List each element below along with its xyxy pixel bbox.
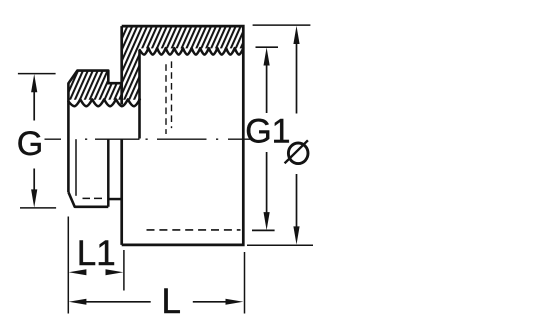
- svg-text:L: L: [162, 282, 181, 321]
- dimension G up arrow: [31, 74, 37, 92]
- dimension diameter bottom extension line: [247, 244, 313, 246]
- dimension G1 up arrow: [264, 47, 270, 65]
- dimension G1 top tick: [256, 46, 279, 48]
- counterbore face line: [138, 50, 141, 139]
- dimension L line left segment: [85, 301, 151, 303]
- dimension L right extension line: [244, 252, 246, 314]
- svg-text:G: G: [17, 125, 43, 163]
- section hatching (body wall and boss wall): [68, 26, 243, 100]
- centerline (dash-dot axis): [45, 138, 251, 140]
- shared left extension line for L1 and L: [67, 217, 69, 314]
- step face line (bottom half): [107, 139, 110, 207]
- body left face line upper segment: [120, 26, 123, 104]
- dimension diameter up arrow: [293, 26, 299, 44]
- dimension G down arrow: [31, 189, 37, 207]
- body outline (top, right, bottom edges): [122, 26, 244, 245]
- internal thread G zigzag: [68, 99, 139, 106]
- body left face line lower segment: [120, 139, 123, 245]
- dimension L1 right arrow: [106, 269, 124, 275]
- dimension L line right segment: [193, 301, 226, 303]
- dimension G1 bottom tick: [252, 229, 275, 231]
- dimension L1 left arrow: [69, 269, 87, 275]
- dimension L1 right extension line: [123, 250, 125, 291]
- dimension diameter top extension line: [253, 24, 311, 26]
- boss top outline with chamfer, step and neck top edge: [68, 71, 121, 193]
- svg-text:G1: G1: [245, 113, 290, 151]
- dimension G top extension line: [18, 73, 56, 75]
- internal thread G1 zigzag: [140, 48, 244, 55]
- dimension diameter down arrow: [293, 226, 299, 244]
- dimension G1 bottom stem: [266, 152, 268, 214]
- dimension G bottom extension line: [20, 207, 56, 209]
- dimension diameter bottom stem: [296, 174, 298, 228]
- dimension G1 top stem: [266, 63, 268, 113]
- boss bottom chamfer and bottom edge: [68, 192, 108, 207]
- dimension G bottom stem: [33, 169, 35, 192]
- hidden thread root line (dashed, lower left): [83, 197, 103, 199]
- dimension diameter top stem: [296, 42, 298, 114]
- neck bottom edge: [108, 198, 121, 201]
- dimension G1 down arrow: [264, 212, 270, 230]
- dimension G top stem: [33, 90, 35, 121]
- chamfer cone edge line: [75, 139, 77, 196]
- hidden thread line in body (dashed, bottom half): [147, 229, 241, 231]
- thread runout hidden line 2 (dashed vertical): [171, 61, 173, 128]
- dimension L right arrow: [226, 299, 244, 305]
- svg-text:L1: L1: [77, 234, 116, 273]
- thread runout hidden line 1 (dashed vertical): [165, 64, 167, 134]
- label diameter symbol: [285, 140, 308, 163]
- dimension L left arrow: [69, 299, 87, 305]
